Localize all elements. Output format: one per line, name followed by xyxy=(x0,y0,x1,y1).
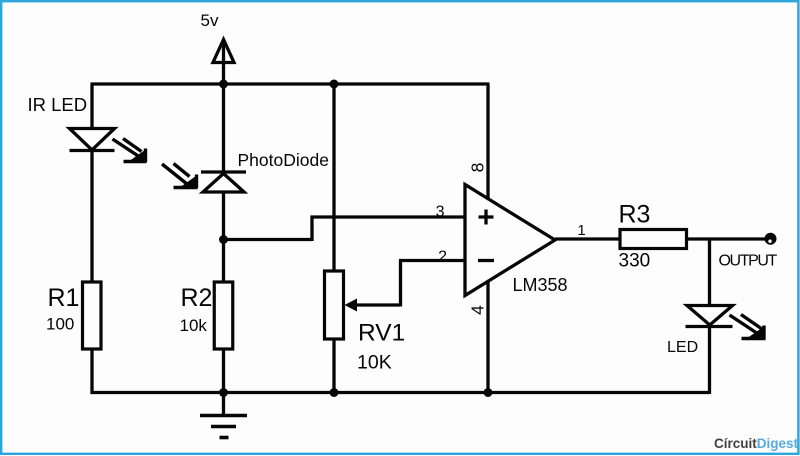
wire: R2 to ground rail xyxy=(222,349,225,394)
LED D3 emission arrow xyxy=(730,315,766,340)
svg-text:CírcuitDigest: CírcuitDigest xyxy=(714,436,799,451)
photodiode D2 symbol xyxy=(201,170,246,173)
wire: node A horizontal toward op-amp xyxy=(224,238,313,241)
svg-text:R1: R1 xyxy=(48,284,80,312)
wire: photodiode anode down to node A xyxy=(222,193,225,241)
wire: bottom ground rail xyxy=(91,391,710,394)
svg-text:4: 4 xyxy=(467,305,487,315)
wire: op-amp pin 8 riser xyxy=(486,84,489,199)
power +5V symbol xyxy=(222,40,225,84)
wire: to op-amp pin 2 xyxy=(399,259,465,262)
wire: IR LED cathode to R1 xyxy=(90,151,93,283)
junction node: ground / R2 xyxy=(219,388,228,397)
svg-text:10k: 10k xyxy=(180,316,208,335)
op-amp U1 LM358 triangle xyxy=(465,185,555,296)
svg-text:330: 330 xyxy=(619,251,651,272)
wire: R3 to output terminal xyxy=(687,237,766,240)
IR LED emission arrow xyxy=(113,139,147,163)
svg-text:1: 1 xyxy=(577,222,585,239)
wire: node A to R2 xyxy=(222,240,225,283)
wire: RV1 top riser from 5V rail xyxy=(332,84,335,271)
wire: top 5V rail xyxy=(91,82,490,85)
wire: LED cathode to ground rail xyxy=(708,327,711,394)
svg-text:RV1: RV1 xyxy=(358,320,405,347)
RV1 wiper arrowhead xyxy=(345,299,358,312)
svg-text:3: 3 xyxy=(436,204,445,221)
potentiometer RV1 body xyxy=(325,271,344,339)
svg-text:LM358: LM358 xyxy=(513,275,568,295)
wire: to op-amp pin 3 xyxy=(311,215,466,218)
svg-text:LED: LED xyxy=(667,339,698,356)
svg-text:R3: R3 xyxy=(619,201,651,229)
svg-text:8: 8 xyxy=(467,163,487,173)
svg-text:PhotoDiode: PhotoDiode xyxy=(238,150,329,170)
LED D3 symbol xyxy=(687,306,733,326)
svg-text:10K: 10K xyxy=(357,352,392,374)
junction node: 5V / RV1 xyxy=(330,80,339,89)
photodiode D2 riser from 5V xyxy=(222,84,225,171)
LED D1 IR LED symbol xyxy=(70,129,115,151)
ground symbol xyxy=(222,393,225,415)
photodiode incident light arrow xyxy=(162,164,198,189)
wire: op-amp output pin 1 to R3 xyxy=(555,237,621,240)
resistor R1 body xyxy=(83,282,102,349)
junction node: ground / RV1 xyxy=(330,388,339,397)
svg-text:OUTPUT: OUTPUT xyxy=(719,253,778,270)
wire: R1 to ground rail xyxy=(90,349,93,394)
wire: IR LED anode riser xyxy=(90,84,93,129)
junction node: 5V / photodiode xyxy=(219,80,228,89)
junction node: ground / pin 4 xyxy=(484,388,493,397)
wire: wiper step up xyxy=(399,261,402,307)
resistor R3 body xyxy=(620,230,687,249)
svg-text:100: 100 xyxy=(46,315,74,334)
op-amp minus mark xyxy=(478,259,494,262)
wire: RV1 wiper shaft xyxy=(353,303,400,306)
op-amp plus mark xyxy=(479,210,494,225)
wire: op-amp pin 4 to ground rail xyxy=(486,281,489,394)
wire: RV1 bottom to ground rail xyxy=(332,339,335,394)
junction node A: photodiode / R2 / pin3 xyxy=(219,235,228,244)
svg-text:2: 2 xyxy=(438,249,447,266)
output terminal pad xyxy=(765,233,777,245)
svg-text:R2: R2 xyxy=(181,284,213,312)
wire: LED D3 riser xyxy=(708,239,711,305)
resistor R2 body xyxy=(214,282,233,349)
svg-text:5v: 5v xyxy=(201,11,219,30)
wire: step up xyxy=(310,216,313,242)
svg-text:IR LED: IR LED xyxy=(28,94,88,115)
